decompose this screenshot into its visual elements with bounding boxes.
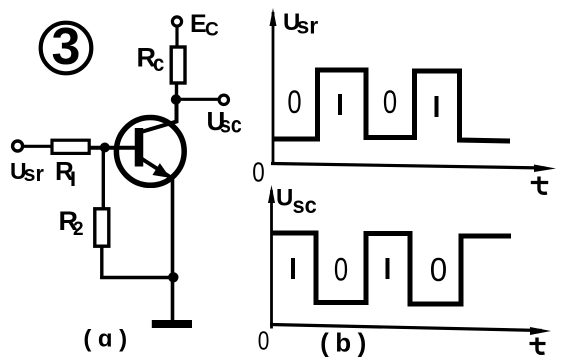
- svg-text:0: 0: [258, 326, 270, 355]
- wire emitter down to ground: [171, 178, 175, 322]
- wire base junction down to R2: [102, 150, 105, 209]
- svg-text:3: 3: [52, 18, 81, 76]
- input terminal Usr: [13, 141, 23, 151]
- label R2: [59, 206, 84, 240]
- svg-text:(b): (b): [320, 328, 373, 358]
- transistor Q1 base bar: [135, 128, 144, 167]
- svg-text:0: 0: [430, 251, 447, 288]
- label Usc axis bottom: [276, 185, 317, 219]
- resistor R1: [52, 140, 89, 153]
- label Usr axis top: [283, 9, 318, 39]
- wire Rc to collector node: [175, 83, 178, 99]
- node base junction: [100, 143, 110, 153]
- wire collector lead: [141, 104, 177, 132]
- label Usr input: [10, 158, 44, 186]
- wire collector node to output terminal: [179, 98, 218, 101]
- bit label 1 second top: [435, 96, 439, 117]
- resistor Rc: [171, 47, 185, 83]
- label Rc: [137, 43, 165, 77]
- svg-text:sc: sc: [293, 192, 317, 218]
- output terminal: [219, 95, 228, 104]
- supply terminal EC: [172, 17, 181, 26]
- svg-text:U: U: [276, 185, 293, 212]
- svg-text:C: C: [205, 20, 219, 41]
- label R1: [55, 156, 74, 186]
- svg-text:sr: sr: [24, 161, 45, 186]
- axis Y bottom graph: [268, 185, 275, 329]
- transistor Q1 emitter lead with arrow: [139, 157, 173, 179]
- wire input to R1: [24, 145, 53, 148]
- wire R2 to bottom rail: [100, 246, 103, 279]
- waveform Usc: [271, 233, 511, 304]
- svg-text:(ɑ): (ɑ): [83, 326, 133, 353]
- svg-text:sc: sc: [220, 112, 242, 138]
- wire bottom rail: [100, 276, 173, 279]
- svg-text:sr: sr: [297, 13, 319, 39]
- svg-text:c: c: [153, 50, 164, 77]
- bit label 1 first bottom: [291, 258, 295, 279]
- bit label 1 second bottom: [386, 258, 390, 279]
- svg-text:2: 2: [73, 219, 84, 240]
- svg-text:0: 0: [383, 85, 397, 120]
- label EC: [190, 10, 219, 41]
- wire R1 to base: [89, 146, 136, 150]
- resistor R2: [95, 209, 109, 246]
- axis Y top graph: [270, 8, 277, 164]
- axis X top graph: [271, 164, 556, 173]
- bit label 1 first top: [338, 94, 342, 115]
- svg-text:0: 0: [252, 157, 264, 188]
- figure number badge 3: [41, 18, 92, 76]
- transistor Q1 body: [116, 117, 184, 185]
- label Usc output: [207, 106, 242, 138]
- svg-text:0: 0: [334, 253, 348, 288]
- svg-text:0: 0: [287, 85, 301, 120]
- label t bottom graph: [537, 338, 545, 354]
- ground: [152, 320, 192, 328]
- wire EC to Rc: [175, 27, 178, 49]
- node collector junction: [171, 94, 181, 104]
- label t top graph: [539, 177, 547, 194]
- node emitter junction: [168, 272, 178, 282]
- svg-text:R: R: [55, 156, 74, 186]
- axis X bottom graph: [270, 325, 551, 336]
- waveform Usr: [272, 70, 510, 141]
